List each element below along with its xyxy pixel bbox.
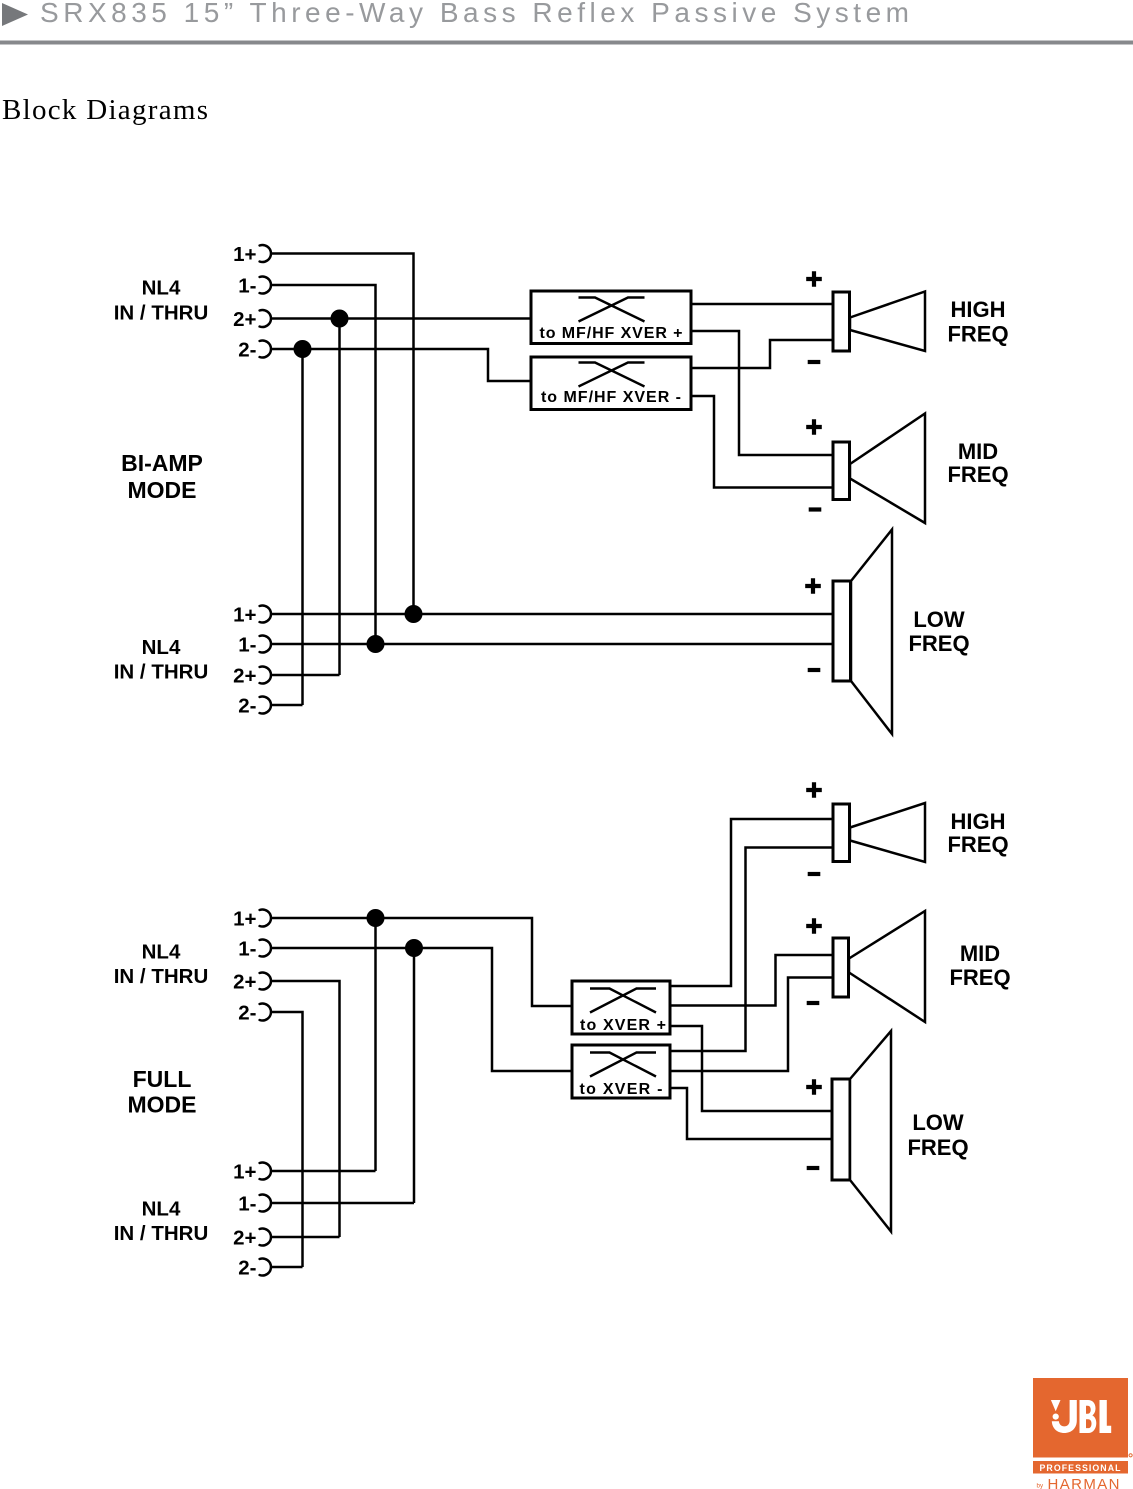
crossover box U1 to MF/HF XVER + (531, 291, 691, 344)
header rule (0, 41, 1133, 45)
by HARMAN wordmark (1037, 1476, 1120, 1489)
svg-text:2-: 2- (238, 694, 256, 717)
svg-text:FREQ: FREQ (908, 631, 969, 656)
JBL PROFESSIONAL bar (1033, 1461, 1128, 1474)
svg-text:1+: 1+ (233, 243, 256, 266)
junction 2+ tap (331, 310, 349, 328)
label LOW FREQ (FULL) (907, 1110, 968, 1160)
connector pin 1- NL4-A (238, 274, 271, 297)
svg-text:FREQ: FREQ (947, 462, 1008, 487)
wire XVER- out to HF- (FULL) (670, 848, 833, 1052)
label NL4 IN/THRU (BI-AMP bottom) (114, 636, 209, 684)
svg-text:FREQ: FREQ (947, 832, 1008, 857)
svg-text:2+: 2+ (233, 308, 256, 331)
speaker HIGH FREQ (FULL) driver (833, 803, 925, 862)
label LOW FREQ (BI-AMP) (908, 607, 969, 656)
label NL4 IN/THRU (BI-AMP top) (114, 276, 209, 324)
connector pin 1+ NL4-B (233, 603, 271, 626)
junction 1- tap (367, 635, 385, 653)
svg-text:1+: 1+ (233, 1160, 256, 1183)
label NL4 IN/THRU (FULL bottom) (114, 1197, 209, 1245)
label BI-AMP MODE (121, 450, 203, 503)
plus terminal MID+ FULL (806, 918, 822, 934)
connector pin 2- NL4-C (238, 1001, 271, 1024)
svg-text:2+: 2+ (233, 1226, 256, 1249)
connector pin 2+ NL4-A (233, 308, 271, 331)
wire 2+ D stub (271, 1236, 340, 1239)
wire XVER+ out to LOW+ (FULL) (670, 1026, 832, 1111)
svg-text:1+: 1+ (233, 907, 256, 930)
JBL logo letter B (1080, 1400, 1097, 1433)
wire 2- link vertical (301, 349, 304, 705)
header arrow (2, 3, 28, 26)
svg-text:LOW: LOW (912, 1110, 964, 1135)
label MID FREQ (FULL) (949, 941, 1010, 990)
wire XVER- out to MID- (FULL) (670, 978, 833, 1072)
svg-text:2-: 2- (238, 1256, 256, 1279)
svg-text:FREQ: FREQ (947, 321, 1008, 346)
wire XVER- out to HF- (691, 340, 833, 368)
junction 1+ tap (405, 605, 423, 623)
svg-text:IN / THRU: IN / THRU (114, 1222, 209, 1245)
wire 1+ D stub (271, 1170, 376, 1173)
wire 2+ C jumper (271, 981, 340, 1237)
svg-text:MODE: MODE (128, 477, 197, 503)
minus terminal LOW- (808, 668, 821, 672)
minus terminal LOW- FULL (807, 1166, 820, 1170)
connector pin 2- NL4-B (238, 694, 271, 717)
svg-text:FULL: FULL (133, 1066, 192, 1092)
svg-text:2-: 2- (238, 338, 256, 361)
connector pin 1- NL4-D (238, 1192, 271, 1215)
connector pin 1- NL4-C (238, 937, 271, 960)
svg-text:IN / THRU: IN / THRU (114, 660, 209, 683)
connector pin 1+ NL4-A (233, 243, 271, 266)
wire XVER+ out to HF+ (FULL) (670, 819, 833, 986)
svg-text:MID: MID (958, 439, 998, 464)
plus terminal HF+ FULL (806, 782, 822, 798)
svg-text:to XVER -: to XVER - (580, 1081, 663, 1098)
connector pin 1+ NL4-D (233, 1160, 271, 1183)
minus terminal MID- (809, 507, 822, 511)
JBL logo square (1033, 1378, 1128, 1458)
minus terminal HF- (808, 360, 821, 364)
connector pin 1+ NL4-C (233, 907, 271, 930)
svg-text:PROFESSIONAL: PROFESSIONAL (1040, 1463, 1122, 1473)
svg-text:HIGH: HIGH (951, 809, 1006, 834)
svg-text:SRX835 15” Three-Way Bass Refl: SRX835 15” Three-Way Bass Reflex Passive… (40, 0, 909, 28)
junction 2- tap (294, 340, 312, 358)
JBL registered mark (1129, 1454, 1132, 1457)
crossover box U2 to MF/HF XVER - (531, 357, 691, 410)
plus terminal MID+ (806, 419, 822, 435)
connector pin 1- NL4-B (238, 633, 271, 656)
speaker MID FREQ (BI-AMP) driver (833, 414, 925, 524)
junction 1- tap (FULL) (405, 939, 423, 957)
wire 2- D stub (271, 1266, 303, 1269)
wire XVER+ out to HF+ (691, 303, 833, 306)
svg-text:to MF/HF XVER +: to MF/HF XVER + (540, 325, 683, 342)
crossover box U4 to XVER - (572, 1045, 670, 1098)
svg-text:1+: 1+ (233, 603, 256, 626)
label FULL MODE (128, 1066, 197, 1118)
JBL logo exclamation mark (1051, 1400, 1061, 1420)
svg-text:2-: 2- (238, 1001, 256, 1024)
svg-text:IN / THRU: IN / THRU (114, 301, 209, 324)
wire XVER- out to MID- (691, 396, 833, 488)
connector pin 2+ NL4-B (233, 664, 271, 687)
minus terminal MID- FULL (807, 1001, 820, 1005)
minus terminal HF- FULL (808, 872, 821, 876)
wire 1+ C to XVER+ box (271, 918, 572, 1006)
speaker MID FREQ (FULL) driver (833, 911, 925, 1022)
wire 1- B to LOW - (271, 643, 833, 646)
connector pin 2- NL4-A (238, 338, 271, 361)
svg-text:1-: 1- (238, 1192, 256, 1215)
svg-text:NL4: NL4 (142, 940, 181, 963)
wire 1- A to LOW- feed (271, 285, 376, 644)
speaker LOW FREQ (BI-AMP) driver (833, 530, 892, 735)
wire 2+ link vertical (338, 319, 341, 676)
connector pin 2- NL4-D (238, 1256, 271, 1279)
svg-text:NL4: NL4 (142, 1197, 181, 1220)
wire 1- D stub (271, 1202, 414, 1205)
svg-text:FREQ: FREQ (907, 1135, 968, 1160)
wire 1+ link vertical (374, 918, 377, 1171)
svg-text:by: by (1037, 1483, 1044, 1489)
crossover box U3 to XVER + (572, 981, 670, 1034)
svg-text:Block Diagrams: Block Diagrams (2, 94, 208, 126)
JBL logo letter L (1100, 1400, 1112, 1433)
wire XVER+ out to MID+ (FULL) (670, 955, 833, 1006)
wire 2- C jumper (271, 1012, 303, 1267)
svg-text:to MF/HF XVER -: to MF/HF XVER - (541, 389, 681, 406)
wire 2- B stub (271, 704, 303, 707)
label NL4 IN/THRU (FULL top) (114, 940, 209, 988)
svg-text:HIGH: HIGH (951, 297, 1006, 322)
plus terminal LOW+ (805, 578, 821, 594)
svg-text:1-: 1- (238, 937, 256, 960)
svg-text:2+: 2+ (233, 664, 256, 687)
svg-text:LOW: LOW (913, 607, 965, 632)
label HIGH FREQ (BI-AMP) (947, 297, 1008, 347)
wire 1- C to XVER- box (271, 948, 572, 1071)
svg-text:to XVER +: to XVER + (580, 1017, 666, 1034)
speaker LOW FREQ (FULL) driver (832, 1031, 891, 1232)
svg-text:MID: MID (960, 941, 1000, 966)
svg-text:1-: 1- (238, 633, 256, 656)
wire 1- link vertical (413, 948, 416, 1203)
wire XVER- out to LOW- (FULL) (670, 1088, 832, 1139)
label MID FREQ (BI-AMP) (947, 439, 1008, 487)
plus terminal HF+ (806, 271, 822, 287)
wire 2+ A to XVER+ box (271, 317, 531, 320)
speaker HIGH FREQ (BI-AMP) driver (833, 292, 925, 352)
svg-text:NL4: NL4 (142, 276, 181, 299)
JBL logo letter J (1052, 1400, 1077, 1433)
wire 1+ B to LOW + (271, 613, 833, 616)
plus terminal LOW+ FULL (806, 1079, 822, 1095)
svg-text:BI-AMP: BI-AMP (121, 450, 203, 476)
svg-text:FREQ: FREQ (949, 965, 1010, 990)
svg-text:2+: 2+ (233, 970, 256, 993)
svg-text:NL4: NL4 (142, 636, 181, 659)
wire XVER+ out to MID+ (691, 331, 833, 455)
svg-text:HARMAN: HARMAN (1048, 1476, 1120, 1489)
label HIGH FREQ (FULL) (947, 809, 1008, 857)
svg-text:MODE: MODE (128, 1092, 197, 1118)
svg-text:1-: 1- (238, 274, 256, 297)
junction 1+ tap (FULL) (367, 909, 385, 927)
wire 1+ A to LOW+ feed (271, 254, 414, 615)
svg-text:IN / THRU: IN / THRU (114, 965, 209, 988)
connector pin 2+ NL4-D (233, 1226, 271, 1249)
connector pin 2+ NL4-C (233, 970, 271, 993)
wire 2+ B stub (271, 674, 340, 677)
wire 2- A to XVER- box (271, 349, 531, 381)
